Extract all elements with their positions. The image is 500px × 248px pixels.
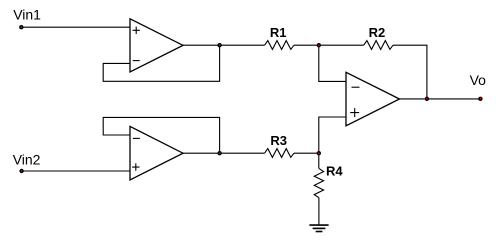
wire node D to resistor R3 xyxy=(220,152,265,154)
node Vin2 terminal xyxy=(19,169,23,173)
wire U2 feedback loop to - input xyxy=(103,117,219,153)
svg-text:Vo: Vo xyxy=(470,72,487,88)
resistor R1 xyxy=(265,25,294,50)
wire Vin1 to op-amp U1 + input xyxy=(21,26,130,28)
wire node B to resistor R2 xyxy=(319,44,364,46)
wire R3 to node E xyxy=(294,152,319,154)
wire node B down to U3 - input xyxy=(319,45,346,81)
svg-text:R4: R4 xyxy=(326,163,343,178)
node Vin2 label xyxy=(13,152,41,168)
node B (R1/R2 junction) xyxy=(317,43,321,47)
wire U2 output to node D xyxy=(183,152,220,154)
svg-text:R3: R3 xyxy=(270,133,287,148)
node Vin1 label xyxy=(13,7,41,23)
resistor R3 xyxy=(265,133,294,158)
node C (output/feedback junction) xyxy=(425,97,429,101)
node Vin1 terminal xyxy=(19,25,23,29)
wire U3 output to Vo terminal xyxy=(400,98,481,100)
ground xyxy=(309,225,328,231)
wire R1 to node B xyxy=(294,44,319,46)
node Vo label xyxy=(470,72,487,88)
svg-text:R2: R2 xyxy=(369,25,386,40)
wire R4 to ground xyxy=(318,198,320,225)
op-amp U3 xyxy=(346,72,400,126)
op-amp U1 xyxy=(130,19,183,72)
node A (U1 output junction) xyxy=(217,43,221,47)
wire node A to resistor R1 xyxy=(220,44,265,46)
wire U1 output to node A xyxy=(183,44,220,46)
wire U1 feedback loop to - input xyxy=(103,45,219,81)
wire node E up to U3 + input xyxy=(319,117,346,153)
op-amp U2 xyxy=(130,126,183,180)
svg-text:Vin1: Vin1 xyxy=(13,7,41,23)
wire R2 to feedback corner down to output node C xyxy=(393,45,427,99)
svg-text:R1: R1 xyxy=(270,25,287,40)
node D (U2 output junction) xyxy=(217,151,221,155)
resistor R4 xyxy=(314,163,343,197)
wire node E down to resistor R4 xyxy=(318,153,320,168)
svg-text:Vin2: Vin2 xyxy=(13,152,41,168)
resistor R2 xyxy=(364,25,393,50)
node E (R3/R4 junction) xyxy=(317,151,321,155)
wire Vin2 to op-amp U2 + input xyxy=(22,170,130,172)
node Vo terminal xyxy=(478,97,482,101)
